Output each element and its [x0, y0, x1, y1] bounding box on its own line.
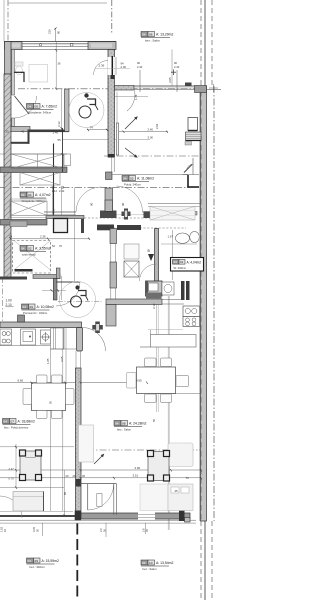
svg-text:A: 15,59m2: A: 15,59m2: [42, 559, 59, 563]
door bath1 west: leaf + arc: [15, 96, 30, 114]
svg-text:04: 04: [4, 419, 8, 423]
room label Sta06 salon: [141, 32, 173, 43]
svg-text:3.12: 3.12: [57, 121, 61, 127]
svg-text:04: 04: [28, 104, 32, 108]
bottom wall left lines: [0, 510, 73, 512]
svg-text:08: 08: [122, 421, 126, 425]
dim line vertical salon: [171, 50, 173, 86]
svg-text:2.40: 2.40: [59, 189, 65, 193]
svg-text:70: 70: [186, 476, 190, 480]
svg-text:1.67: 1.67: [168, 235, 174, 239]
wall bathroom east: [65, 89, 70, 132]
dim line corridor: [10, 238, 90, 240]
svg-text:2.6: 2.6: [142, 528, 146, 532]
room label Sta03: [122, 176, 154, 187]
bottom wall right section: [81, 513, 190, 519]
dim line bedroom2: [148, 393, 200, 395]
pier at wall junction: [75, 511, 81, 521]
svg-text:07: 07: [11, 419, 15, 423]
toilet top-left: [15, 62, 23, 66]
svg-text:3.51: 3.51: [133, 474, 139, 478]
elevator shaft dashed: [13, 241, 51, 274]
svg-text:2.0: 2.0: [99, 528, 103, 532]
svg-text:A: 4,07m2: A: 4,07m2: [35, 193, 51, 197]
axis dash-dot top mid: [111, 0, 113, 33]
svg-text:04: 04: [28, 193, 32, 197]
svg-text:2.36: 2.36: [99, 64, 105, 68]
direction arrows: [125, 117, 138, 130]
right boundary trio bottom: [200, 521, 202, 600]
svg-text:04: 04: [115, 421, 119, 425]
dining table 1: [32, 383, 66, 411]
svg-text:2.47: 2.47: [9, 467, 15, 471]
svg-text:04: 04: [142, 561, 146, 565]
unit boundary bold dashed below cut: [76, 524, 78, 600]
kitchen tall unit side wall: [61, 328, 65, 350]
svg-text:85: 85: [63, 492, 67, 495]
stairwell east wall lines: [53, 144, 55, 219]
svg-text:2.12: 2.12: [52, 189, 58, 193]
balcony closet + dark L: [192, 158, 194, 175]
room label elevator: [20, 246, 51, 257]
svg-text:50: 50: [152, 418, 156, 422]
svg-text:A: 11,08m2: A: 11,08m2: [137, 177, 154, 181]
svg-text:2.40: 2.40: [137, 65, 143, 69]
room label bottom right: [141, 560, 173, 571]
central wall stem above T: [105, 188, 113, 211]
svg-text:3.05: 3.05: [168, 77, 172, 83]
right boundary trio top: [200, 0, 202, 86]
door in central wall top: [108, 57, 115, 75]
left outer wall upper: [5, 42, 12, 75]
stair landing wall: [0, 167, 67, 173]
top wall right corner pier: [88, 42, 116, 50]
svg-text:25: 25: [6, 129, 10, 133]
svg-text:1.40: 1.40: [53, 131, 59, 135]
radiator bars: [181, 281, 185, 300]
svg-text:70: 70: [59, 244, 62, 248]
central wall lower (below corridor): [110, 229, 117, 244]
room label Sta01 boxed: [171, 258, 204, 272]
svg-text:40: 40: [21, 129, 25, 133]
svg-text:2.40: 2.40: [148, 128, 154, 132]
shaft boxes right mid: [188, 118, 198, 131]
svg-text:W: 260cm: W: 260cm: [174, 266, 187, 270]
svg-text:A: 4,04m2: A: 4,04m2: [187, 260, 202, 264]
bottom wall dim cluster: [42, 523, 44, 536]
svg-text:1.85: 1.85: [46, 358, 50, 364]
room label Sta08 salon2: [114, 421, 146, 432]
tall unit: [51, 328, 64, 349]
svg-text:36: 36: [58, 62, 61, 66]
boundary line top: [9, 2, 108, 4]
stairs top edge: [0, 153, 67, 155]
door arc bottom-left: [0, 496, 22, 518]
axis dash-dot left top: [7, 0, 9, 42]
svg-text:10: 10: [149, 561, 153, 565]
dryer box above washer: [124, 244, 139, 259]
svg-text:52: 52: [52, 244, 55, 248]
svg-text:09: 09: [35, 559, 39, 563]
grid cross top right: [209, 87, 218, 89]
svg-text:2.10: 2.10: [6, 303, 12, 307]
central wall door gap lines: [111, 158, 113, 173]
central wall upper: [108, 50, 115, 158]
svg-text:bez.: Salon: bez.: Salon: [117, 427, 131, 431]
grid tick top right: [207, 89, 222, 91]
loggia X panel: [150, 206, 195, 220]
svg-text:4.06: 4.06: [135, 466, 141, 470]
wall mid-left horizontal: [11, 127, 30, 132]
entry side wall: [53, 279, 57, 301]
svg-text:90: 90: [174, 61, 177, 65]
svg-text:09: 09: [30, 305, 34, 309]
svg-text:Pokój: 340cm: Pokój: 340cm: [124, 182, 142, 186]
dark door blob on central wall top: [111, 74, 115, 79]
svg-text:A: 3,55m2: A: 3,55m2: [35, 247, 51, 251]
svg-text:45: 45: [82, 474, 85, 478]
dim line vertical x56/x61: [55, 42, 57, 90]
svg-text:05: 05: [35, 104, 39, 108]
top wall left corner pier: [5, 42, 23, 50]
top dim vertical: [54, 28, 56, 42]
svg-text:03: 03: [130, 176, 134, 180]
room label Sta04 stairs: [20, 192, 51, 203]
armchair 1: [20, 451, 41, 480]
left wall end cap: [0, 277, 27, 280]
kitchen unit right top: [183, 306, 200, 317]
svg-text:A: 7,65m2: A: 7,65m2: [42, 105, 58, 109]
svg-text:26: 26: [73, 474, 76, 478]
bath2 south boundary line: [113, 174, 189, 176]
axis dash-dot left lower: [2, 277, 4, 322]
stairwell door block: [54, 219, 68, 233]
dim pair vertical mid-right: [156, 296, 158, 412]
couch left unit: [13, 492, 44, 512]
section line bottom: [87, 449, 207, 451]
sink counter right unit: [146, 281, 163, 296]
svg-text:06: 06: [149, 32, 153, 36]
unit division wall: [76, 368, 82, 516]
svg-text:90: 90: [57, 30, 61, 34]
wall stub mid: [106, 305, 116, 327]
washer 2: [162, 282, 174, 295]
kitchen wall: [0, 322, 82, 328]
bed right unit upper: [168, 443, 193, 467]
dim line vertical bottom left: [15, 444, 17, 487]
loggia lines: [148, 203, 200, 205]
svg-text:9.60: 9.60: [18, 378, 24, 382]
svg-text:bez.: 340cm: bez.: 340cm: [30, 565, 46, 569]
svg-text:Pomieszcz.: 340cm: Pomieszcz.: 340cm: [23, 311, 48, 315]
balcony door arc: [187, 164, 194, 171]
door leaf central wall mid: [116, 123, 118, 155]
stair flight upper: [11, 154, 64, 169]
bath3 interior lines: [172, 230, 174, 280]
washer shaft with X: [124, 261, 139, 277]
kitchen counter left: [0, 345, 52, 347]
radiator bath4: [97, 494, 102, 507]
svg-text:4.95: 4.95: [136, 378, 142, 382]
svg-text:bez.: Pokój dzienny: bez.: Pokój dzienny: [4, 425, 29, 429]
corridor north wall lines: [44, 211, 76, 213]
dim line living: [0, 382, 147, 384]
svg-text:90: 90: [90, 202, 94, 206]
dashed corridor lines: [50, 217, 150, 219]
room label bottom left: [27, 558, 59, 569]
boundary thin left: [3, 0, 5, 42]
corridor T column: [100, 211, 117, 219]
ticks on dim lines: [10, 49, 203, 517]
entry door left unit: [56, 281, 80, 283]
stair flight lower: [10, 201, 47, 216]
svg-text:3.05: 3.05: [32, 526, 36, 532]
corridor left door arc: [76, 187, 101, 212]
svg-text:2.36: 2.36: [40, 235, 46, 239]
wall above salon2: [106, 299, 162, 305]
svg-text:2.40: 2.40: [174, 65, 180, 69]
tick pair under salon wall: [139, 70, 141, 92]
wardrobe niche bedroom2: [151, 335, 197, 348]
step bar: [10, 221, 27, 227]
svg-text:0.70: 0.70: [9, 477, 15, 481]
room label Sta05: [27, 104, 58, 115]
svg-text:90: 90: [137, 61, 140, 65]
corridor right door arc: [117, 186, 143, 212]
svg-text:04: 04: [123, 176, 127, 180]
long dim verticals left unit: [49, 349, 51, 511]
armchair 2: [148, 452, 169, 481]
room label kitchen hall: [22, 304, 54, 315]
toilet ovals right: [176, 233, 190, 243]
svg-text:A: 33,68m2: A: 33,68m2: [18, 420, 35, 424]
svg-text:74: 74: [90, 126, 94, 130]
salon top wall with window: [115, 86, 135, 91]
stair flight mid: [20, 173, 60, 186]
top window band: [5, 41, 117, 43]
svg-text:A: 10,08m2: A: 10,08m2: [37, 305, 54, 309]
corridor south band east: [157, 212, 197, 216]
svg-text:01: 01: [180, 260, 184, 264]
left inner wall layer: [12, 50, 15, 96]
central wall blocks: [106, 172, 113, 180]
svg-text:3.05: 3.05: [60, 356, 64, 362]
svg-text:02: 02: [28, 246, 32, 250]
beds bottom right: [140, 484, 168, 511]
niche walls: [28, 132, 30, 144]
svg-text:04: 04: [21, 246, 25, 250]
svg-text:2.30: 2.30: [121, 65, 127, 69]
hall axis: [58, 301, 103, 303]
svg-text:90: 90: [121, 202, 125, 206]
wheelchair circle bath1: [69, 93, 104, 128]
shower box: [29, 65, 48, 83]
svg-text:04: 04: [142, 32, 146, 36]
svg-text:2.62: 2.62: [155, 123, 159, 129]
hall to living door: [82, 328, 106, 352]
svg-text:Ocieplenie: 340cm: Ocieplenie: 340cm: [28, 110, 52, 114]
svg-text:04: 04: [28, 559, 32, 563]
svg-text:45: 45: [175, 489, 179, 493]
svg-text:1.76: 1.76: [134, 94, 138, 100]
bath3 door: [140, 264, 157, 281]
svg-text:04: 04: [23, 305, 27, 309]
dining table 2: [137, 367, 176, 394]
svg-text:1.62: 1.62: [0, 526, 4, 532]
bath3 west wall: [155, 229, 159, 282]
svg-text:04: 04: [21, 193, 25, 197]
svg-text:50: 50: [49, 400, 53, 404]
svg-text:Ocieplenie: 340cm: Ocieplenie: 340cm: [22, 199, 46, 203]
axis line mid: [104, 155, 200, 157]
svg-text:A: 13,54m2: A: 13,54m2: [156, 561, 173, 565]
svg-text:55: 55: [58, 138, 62, 142]
cross salon: [173, 70, 175, 76]
stairwell west line: [62, 128, 64, 172]
svg-text:szyb windy: szyb windy: [22, 252, 36, 256]
room label Sta07 living: [3, 419, 35, 430]
corridor south wall west: [0, 220, 47, 226]
svg-text:A: 13,29m2: A: 13,29m2: [156, 33, 173, 37]
svg-text:210: 210: [48, 29, 52, 34]
couch right unit side: [79, 425, 94, 462]
svg-text:bez.: Salon: bez.: Salon: [143, 567, 157, 571]
right outer wall: [201, 86, 207, 521]
corridor door sill: [97, 225, 114, 231]
section line A horizontal: [18, 88, 200, 90]
svg-text:3.12: 3.12: [152, 303, 156, 309]
section line B horizontal: [0, 186, 201, 188]
svg-text:bez.: Salon: bez.: Salon: [145, 39, 160, 43]
svg-text:A: 24,28m2: A: 24,28m2: [129, 422, 146, 426]
dim line horizontals bottom: [0, 446, 74, 448]
wheelchair circle hall: [60, 282, 96, 318]
svg-text:20: 20: [66, 474, 69, 478]
dim line bath2: [119, 131, 168, 133]
door bath2 top: [127, 91, 135, 112]
svg-text:3.00: 3.00: [148, 136, 154, 140]
left hatched outer wall: [4, 74, 11, 278]
svg-text:04: 04: [174, 260, 178, 264]
plus symbol door area: [95, 322, 100, 334]
right axis dash-dot mid: [213, 86, 215, 521]
svg-text:17x: 17x: [52, 208, 56, 213]
bath4 door bottom: [87, 484, 89, 510]
